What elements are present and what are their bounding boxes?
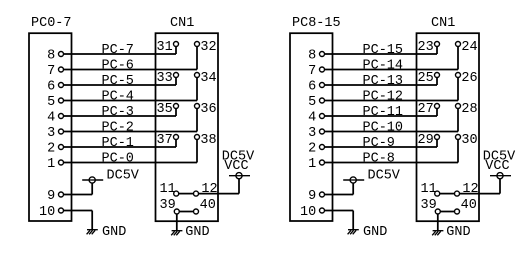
svg-text:12: 12 [201,182,217,197]
wire pin10 to GND vertical (PC8-15) [352,211,354,230]
wire pin12 to VCC horizontal [199,193,240,195]
svg-text:3: 3 [308,126,316,141]
svg-text:2: 2 [308,142,316,157]
svg-text:40: 40 [461,198,477,213]
svg-text:PC-4: PC-4 [102,90,134,105]
CN1 pin 35 circle (PC0-7 side) [174,104,179,109]
svg-text:8: 8 [47,49,55,64]
svg-text:PC-6: PC-6 [102,59,134,74]
svg-text:38: 38 [200,133,216,148]
CN1 pin 28 circle (PC8-15 side) [456,104,461,109]
wire pin10 to GND vertical (PC0-7) [91,211,93,230]
wire PC-15 vertical to CN1 pin 23 [436,46,438,54]
svg-text:34: 34 [200,71,216,86]
svg-text:5: 5 [47,95,55,110]
svg-text:PC-11: PC-11 [363,105,404,120]
wire PC-1 vertical to CN1 pin 37 [175,139,177,147]
wire PC-8 horizontal [325,162,459,164]
wire pin12 to VCC horizontal [460,193,501,195]
svg-text:28: 28 [461,102,477,117]
svg-text:PC-0: PC-0 [102,152,134,167]
pin 6 terminal circle (PC8-15) [320,83,325,88]
CN1 pin 27 circle (PC8-15 side) [435,104,440,109]
pin 8 terminal circle (PC0-7) [59,52,64,57]
power tap VCC [490,173,511,179]
svg-text:DC5V: DC5V [107,169,140,184]
svg-text:33: 33 [157,71,173,86]
pin 7 terminal circle (PC0-7) [59,67,64,72]
svg-text:PC-12: PC-12 [363,90,404,105]
wire PC-12 horizontal [325,100,459,102]
svg-text:24: 24 [461,40,477,55]
CN1 pin 38 circle (PC0-7 side) [195,135,200,140]
wire PC-11 vertical to CN1 pin 27 [436,108,438,116]
wire pin9 to DC5V vertical (PC0-7) [91,183,93,195]
CN1 pin 24 circle (PC8-15 side) [456,42,461,47]
wire pin39 to ground vertical [176,214,178,231]
wire PC-4 horizontal [64,100,198,102]
pin 2 terminal circle (PC8-15) [320,145,325,150]
wire pin39 to pin40 [179,211,193,213]
svg-text:35: 35 [157,102,173,117]
svg-text:39: 39 [421,198,437,213]
pin 7 terminal circle (PC8-15) [320,67,325,72]
svg-text:36: 36 [200,102,216,117]
CN1 pin 40 circle [455,209,460,214]
ground symbol (CN1 side) [171,231,182,236]
CN1 pin 34 circle (PC0-7 side) [195,73,200,78]
ground symbol (CN1 side) [432,231,443,236]
svg-text:PC-10: PC-10 [363,121,404,136]
pin 3 terminal circle (PC0-7) [59,129,64,134]
CN1 pin 33 circle (PC0-7 side) [174,73,179,78]
svg-text:GND: GND [102,225,126,240]
wire pin9 to DC5V horizontal (PC0-7) [64,194,93,196]
wire pin9 to DC5V horizontal (PC8-15) [325,194,354,196]
svg-text:12: 12 [462,182,478,197]
svg-text:PC-5: PC-5 [102,74,134,89]
CN1 pin 40 circle [194,209,199,214]
wire pin12 to VCC vertical [238,179,240,194]
CN1 pin 12 circle [455,191,460,196]
wire PC-14 horizontal [325,69,459,71]
wire PC-7 horizontal [64,53,177,55]
CN1 pin 37 circle (PC0-7 side) [174,135,179,140]
svg-text:32: 32 [200,40,216,55]
svg-text:31: 31 [157,40,173,55]
svg-text:39: 39 [160,198,176,213]
wire PC-10 horizontal [325,131,459,133]
wire PC-9 vertical to CN1 pin 29 [436,139,438,147]
svg-text:PC-8: PC-8 [363,152,395,167]
svg-text:10: 10 [300,205,316,220]
svg-text:8: 8 [308,49,316,64]
wire PC-10 vertical to CN1 pin 28 [457,108,459,131]
svg-text:3: 3 [47,126,55,141]
wire PC-8 vertical to CN1 pin 30 [457,139,459,162]
wire pin10 to GND horizontal (PC8-15) [325,210,354,212]
svg-text:5: 5 [308,95,316,110]
svg-text:4: 4 [308,111,316,126]
svg-text:30: 30 [461,133,477,148]
svg-text:PC8-15: PC8-15 [292,16,341,31]
svg-text:26: 26 [461,71,477,86]
svg-text:6: 6 [308,80,316,95]
svg-text:CN1: CN1 [170,16,194,31]
CN1 pin 11 circle [174,191,179,196]
svg-text:25: 25 [418,71,434,86]
svg-text:DC5V: DC5V [222,150,255,165]
svg-text:4: 4 [47,111,55,126]
pin 1 terminal circle (PC0-7) [59,160,64,165]
svg-text:GND: GND [185,225,209,240]
wire PC-15 horizontal [325,53,438,55]
CN1 pin 11 circle [435,191,440,196]
svg-text:9: 9 [47,189,55,204]
pin 9 terminal circle (PC0-7) [59,192,64,197]
IC box PC0-7 [29,33,72,221]
wire pin10 to GND horizontal (PC0-7) [64,210,93,212]
svg-text:CN1: CN1 [431,16,455,31]
pin 8 terminal circle (PC8-15) [320,52,325,57]
svg-text:23: 23 [418,40,434,55]
svg-text:GND: GND [446,225,470,240]
pin 4 terminal circle (PC0-7) [59,114,64,119]
ground symbol (PC0-7 side) [87,230,98,235]
connector CN1 box (PC0-7 side) [156,33,219,221]
CN1 pin 39 circle [435,209,440,214]
CN1 pin 12 circle [194,191,199,196]
wire PC-3 vertical to CN1 pin 35 [175,108,177,116]
pin 3 terminal circle (PC8-15) [320,129,325,134]
svg-text:1: 1 [308,157,316,172]
pin 5 terminal circle (PC0-7) [59,98,64,103]
CN1 pin 29 circle (PC8-15 side) [435,135,440,140]
CN1 pin 32 circle (PC0-7 side) [195,42,200,47]
CN1 pin 26 circle (PC8-15 side) [456,73,461,78]
CN1 pin 25 circle (PC8-15 side) [435,73,440,78]
pin 4 terminal circle (PC8-15) [320,114,325,119]
wire PC-5 vertical to CN1 pin 33 [175,77,177,85]
wire pin12 to VCC vertical [499,179,501,194]
wire PC-12 vertical to CN1 pin 26 [457,77,459,100]
svg-text:40: 40 [200,198,216,213]
svg-text:37: 37 [157,133,173,148]
svg-text:GND: GND [363,225,387,240]
wire PC-6 vertical to CN1 pin 32 [196,46,198,69]
wire PC-4 vertical to CN1 pin 34 [196,77,198,100]
svg-text:7: 7 [47,64,55,79]
svg-text:PC-3: PC-3 [102,105,134,120]
svg-text:PC-15: PC-15 [363,43,404,58]
wire PC-14 vertical to CN1 pin 24 [457,46,459,69]
wire PC-5 horizontal [64,84,177,86]
CN1 pin 36 circle (PC0-7 side) [195,104,200,109]
pin 10 terminal circle (PC0-7) [59,208,64,213]
svg-text:9: 9 [308,189,316,204]
pin 5 terminal circle (PC8-15) [320,98,325,103]
svg-text:27: 27 [418,102,434,117]
IC box PC8-15 [290,33,333,221]
pin 6 terminal circle (PC0-7) [59,83,64,88]
svg-text:PC-7: PC-7 [102,43,134,58]
pin 1 terminal circle (PC8-15) [320,160,325,165]
svg-text:DC5V: DC5V [483,150,516,165]
pin 9 terminal circle (PC8-15) [320,192,325,197]
svg-text:DC5V: DC5V [368,169,401,184]
connector CN1 box (PC8-15 side) [417,33,480,221]
svg-text:PC-9: PC-9 [363,136,395,151]
wire PC-1 horizontal [64,146,177,148]
svg-text:29: 29 [418,133,434,148]
CN1 pin 31 circle (PC0-7 side) [174,42,179,47]
wire PC-7 vertical to CN1 pin 31 [175,46,177,54]
CN1 pin 23 circle (PC8-15 side) [435,42,440,47]
pin 2 terminal circle (PC0-7) [59,145,64,150]
wire PC-11 horizontal [325,115,438,117]
wire pin11 to pin12 [179,193,194,195]
wire PC-9 horizontal [325,146,438,148]
svg-text:PC0-7: PC0-7 [31,16,72,31]
wire PC-6 horizontal [64,69,198,71]
ground symbol (PC8-15 side) [348,230,359,235]
CN1 pin 30 circle (PC8-15 side) [456,135,461,140]
wire PC-2 horizontal [64,131,198,133]
CN1 pin 39 circle [174,209,179,214]
wire PC-13 horizontal [325,84,438,86]
svg-text:10: 10 [39,205,55,220]
svg-text:PC-2: PC-2 [102,121,134,136]
svg-text:PC-1: PC-1 [102,136,134,151]
svg-text:6: 6 [47,80,55,95]
power tap VCC [229,173,250,179]
svg-text:1: 1 [47,157,55,172]
wire PC-3 horizontal [64,115,177,117]
wire PC-0 vertical to CN1 pin 38 [196,139,198,162]
wire PC-2 vertical to CN1 pin 36 [196,108,198,131]
wire pin9 to DC5V vertical (PC8-15) [352,183,354,195]
wire pin39 to pin40 [440,211,454,213]
svg-text:2: 2 [47,142,55,157]
power tap DC5V (PC0-7 side) [82,177,103,183]
power tap DC5V (PC8-15 side) [343,177,364,183]
pin 10 terminal circle (PC8-15) [320,208,325,213]
wire PC-0 horizontal [64,162,198,164]
wire pin39 to ground vertical [437,214,439,231]
wire pin11 to pin12 [440,193,455,195]
svg-text:PC-13: PC-13 [363,74,404,89]
wire PC-13 vertical to CN1 pin 25 [436,77,438,85]
svg-text:PC-14: PC-14 [363,59,404,74]
svg-text:7: 7 [308,64,316,79]
